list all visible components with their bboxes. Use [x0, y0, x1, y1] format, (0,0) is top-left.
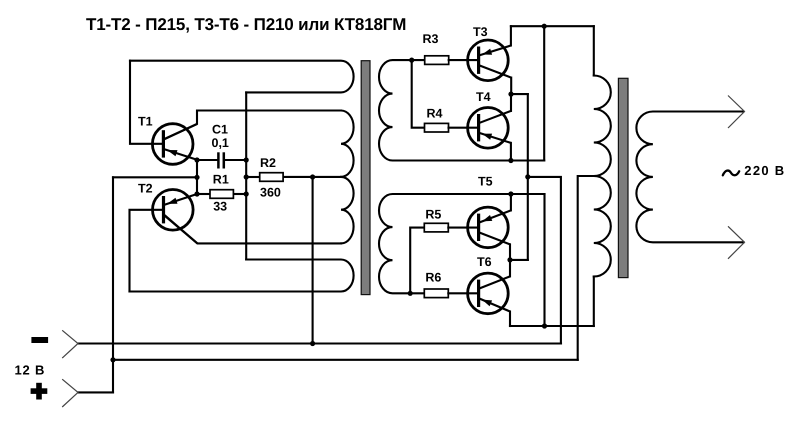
wire T6 emitter riser [509, 312, 511, 327]
node plus rail tap [110, 357, 115, 362]
svg-text:Т1-Т2 - П215, Т3-Т6 - П210 или: Т1-Т2 - П215, Т3-Т6 - П210 или КТ818ГМ [86, 15, 406, 34]
wire plus riser [112, 177, 114, 392]
Tr1 secondary upper winding (3 bumps) [379, 60, 544, 160]
wire Tr2 primary top riser [593, 26, 595, 75]
node T5 emitter [508, 191, 513, 196]
wire feedback winding bottom hairpin (section D) [130, 260, 354, 292]
wire R2 left lead [246, 176, 260, 178]
wire T3 emitter riser to top rail [510, 26, 512, 45]
svg-text:R5: R5 [425, 208, 441, 222]
node minus rail tap [310, 341, 315, 346]
node C1 right [244, 157, 249, 162]
transformer Tr2 core [618, 78, 628, 277]
wire jog to T5/T6 collector junction [510, 259, 528, 261]
Tr2 primary winding (6 bumps) [594, 76, 611, 277]
svg-text:T4: T4 [476, 90, 491, 104]
svg-text:12 В: 12 В [15, 363, 46, 378]
wire T1 emitter junction to C1 [197, 159, 217, 161]
wire T5 emitter riser [510, 194, 512, 210]
transistor T3 [468, 40, 512, 81]
node T4 emitter [508, 158, 513, 163]
wire collector junction to drop line [511, 93, 528, 95]
svg-text:0,1: 0,1 [212, 136, 229, 150]
wire center tap to R2 [283, 176, 341, 178]
wire center tap riser to minus rail [312, 177, 314, 344]
wire R1 right lead [233, 193, 246, 195]
wire feedback winding top hairpin (section A) [130, 61, 354, 93]
output arrow bottom [728, 226, 745, 258]
node collector branch [525, 174, 530, 179]
transistor T4 [468, 108, 511, 149]
svg-text:33: 33 [213, 200, 227, 214]
wire T6 emitter line to Tr2 bottom [510, 325, 594, 327]
wire R5 to T5 base [448, 227, 478, 229]
AC tilde symbol [723, 171, 739, 176]
svg-text:R3: R3 [423, 32, 439, 46]
svg-text:360: 360 [260, 185, 281, 199]
wire C1 right to link rail [225, 159, 246, 161]
node emitter rail tap [194, 175, 199, 180]
wire R5 feed riser [410, 228, 424, 294]
wire emitter rail to plus riser [113, 176, 197, 178]
wire collector drop line [527, 94, 529, 260]
output arrow top [728, 96, 745, 129]
wire plus rail [113, 359, 578, 361]
transformer Tr1 core [361, 61, 370, 295]
wire R4 feed riser [412, 60, 425, 128]
wire riser from emitter line to top rail [543, 26, 545, 160]
svg-text:T6: T6 [477, 255, 492, 269]
wire T2 collector to winding section C [165, 216, 341, 243]
node R5/R6 feed [408, 291, 413, 296]
resistor R2 [260, 173, 283, 182]
primary winding section C (2 bumps) [341, 177, 354, 244]
wire R6 to T6 base [448, 292, 478, 294]
minus symbol [31, 337, 48, 343]
node T1 emitter [194, 157, 199, 162]
wire T3 collector riser [510, 78, 512, 95]
wire plus terminal lead [78, 391, 113, 393]
input arrow minus [62, 330, 78, 358]
wire collector branch to minus riser [528, 177, 561, 344]
svg-text:T2: T2 [138, 182, 153, 196]
node center tap [310, 174, 315, 179]
resistor R1 [210, 190, 233, 199]
input arrow plus [62, 379, 78, 407]
node T3/T4 collectors [508, 92, 513, 97]
node R2 left [244, 174, 249, 179]
wire T1 base riser and lead [130, 61, 162, 144]
node R3/R4 feed [409, 58, 414, 63]
svg-text:R6: R6 [425, 271, 441, 285]
svg-text:T5: T5 [478, 174, 493, 188]
node top rail [542, 24, 547, 29]
wire T6 collector riser [509, 260, 511, 277]
wire top rail [511, 25, 594, 27]
node T2 emitter [194, 191, 199, 196]
transistor T1 [152, 124, 197, 165]
wire T1 collector to winding section B [164, 111, 341, 140]
resistor R5 [424, 223, 448, 232]
transistor T5 [468, 207, 511, 248]
wire R1 left lead [197, 193, 210, 195]
wire feedback link rail [245, 92, 247, 259]
svg-text:R1: R1 [213, 172, 229, 186]
wire T5 collector riser [509, 244, 511, 260]
resistor R4 [425, 123, 449, 132]
transistor T6 [468, 273, 510, 314]
node T5/T6 collectors [507, 257, 512, 262]
node R1 right [244, 191, 249, 196]
resistor R3 [425, 56, 449, 65]
svg-text:T3: T3 [473, 25, 488, 39]
wire T4 collector riser [510, 94, 512, 111]
svg-text:R2: R2 [260, 156, 276, 170]
Tr2 secondary winding (4 bumps) [636, 112, 743, 243]
wire riser from T5 emitter line down to T6 emitter line [543, 194, 545, 326]
wire emitter rail [196, 160, 198, 194]
Tr1 secondary lower winding (3 bumps) [379, 194, 545, 293]
transistor T2 [153, 190, 198, 244]
svg-text:R4: R4 [427, 106, 443, 120]
plus symbol [31, 383, 48, 400]
primary winding section B (2 bumps) [341, 111, 354, 177]
svg-text:220 В: 220 В [744, 163, 785, 178]
wire Tr2 primary bottom drop [593, 277, 595, 327]
wire R4 to T4 base [449, 127, 479, 129]
capacitor C1 [218, 152, 223, 168]
svg-text:T1: T1 [138, 115, 153, 129]
wire Tr2 center tap to plus rail [578, 176, 594, 360]
node T6 emitter line [542, 323, 547, 328]
wire minus rail [78, 342, 561, 344]
resistor R6 [424, 289, 448, 298]
wire T2 base riser and lead [130, 210, 162, 292]
wire R3 to T3 base [449, 59, 479, 61]
svg-text:C1: C1 [212, 123, 228, 137]
wire T4 emitter riser [510, 143, 512, 161]
